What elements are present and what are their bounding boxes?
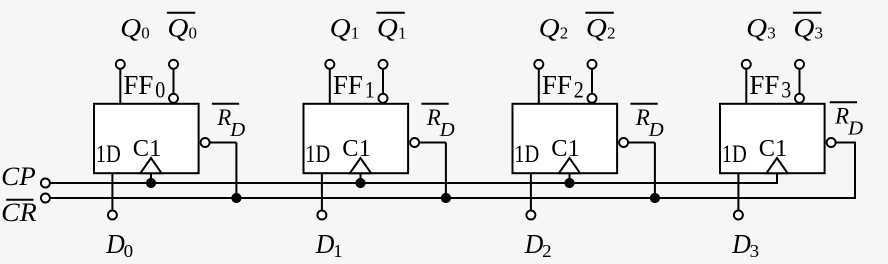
svg-text:FF: FF (333, 70, 363, 100)
svg-text:Q: Q (746, 13, 767, 42)
svg-text:Q: Q (330, 13, 351, 42)
svg-text:D: D (105, 229, 125, 259)
node D3 terminal (734, 211, 743, 220)
svg-text:2: 2 (542, 241, 552, 261)
svg-text:0: 0 (155, 78, 165, 103)
wire Q3 output stub (745, 68, 747, 104)
wire D0 input stub (111, 173, 113, 211)
svg-text:2: 2 (560, 23, 569, 42)
svg-text:C1: C1 (133, 136, 162, 162)
svg-text:R: R (426, 105, 441, 130)
node D2 terminal (526, 211, 535, 220)
wire CP bus horizontal (51, 182, 778, 184)
label Q1-bar overline (376, 12, 404, 14)
svg-text:1: 1 (333, 241, 343, 261)
label Q3-bar overline (793, 12, 821, 14)
CP input terminal (41, 179, 50, 188)
svg-text:1D: 1D (305, 139, 330, 168)
inversion bubble RD FF1 (410, 138, 419, 147)
svg-text:R: R (635, 105, 650, 130)
inversion bubble Q1-bar (379, 94, 388, 103)
wire RD horizontal FF0 (210, 142, 236, 144)
svg-text:R: R (216, 105, 231, 130)
flip-flop U0 FF0 box (94, 104, 199, 173)
wire Q1-bar output stub (382, 68, 384, 94)
svg-text:1D: 1D (722, 139, 747, 168)
svg-text:Q: Q (539, 13, 560, 42)
wire RD vertical FF1 (445, 143, 447, 199)
wire D2 input stub (530, 173, 532, 211)
svg-text:R: R (834, 103, 849, 128)
wire Q1 output stub (329, 68, 331, 104)
svg-text:C1: C1 (759, 136, 788, 162)
svg-text:FF: FF (123, 70, 153, 100)
svg-text:1: 1 (398, 23, 407, 42)
node D0 terminal (108, 211, 117, 220)
svg-text:C1: C1 (551, 136, 580, 162)
label RD overline FF0 (212, 103, 239, 105)
inversion bubble Q3-bar (795, 94, 804, 103)
wire CP riser to FF3 C1 (776, 173, 778, 184)
inversion bubble RD FF2 (619, 138, 628, 147)
wire CR bus horizontal (51, 197, 856, 199)
flip-flop U1 FF1 box (304, 104, 409, 173)
wire FF3 RD horizontal (836, 142, 856, 144)
svg-text:Q: Q (793, 13, 814, 42)
svg-text:0: 0 (189, 23, 198, 42)
label CR overline (6, 199, 33, 201)
wire CR riser to FF3 RD (854, 143, 856, 200)
svg-text:1: 1 (365, 78, 375, 103)
wire Q3-bar output stub (799, 68, 801, 94)
clock edge triangle FF0 (140, 158, 161, 173)
flip-flop U3 FF3 box (720, 104, 825, 173)
junction CR/RD FF0 (231, 193, 241, 203)
wire C1 stub to CP bus FF2 (569, 173, 571, 183)
inversion bubble Q0-bar (169, 94, 178, 103)
svg-text:D: D (524, 229, 544, 259)
wire Q0 output stub (119, 68, 121, 104)
node Q2 terminal (534, 60, 543, 69)
CR input terminal (41, 194, 50, 203)
svg-text:CP: CP (1, 162, 36, 191)
wire RD vertical FF2 (654, 143, 656, 199)
label RD overline FF3 (830, 101, 857, 103)
clock edge triangle FF2 (559, 158, 580, 173)
svg-text:1D: 1D (96, 139, 121, 168)
wire C1 stub to CP bus FF0 (150, 173, 152, 183)
svg-text:1: 1 (351, 23, 360, 42)
junction CR/RD FF2 (650, 193, 660, 203)
svg-text:Q: Q (120, 13, 141, 42)
node Q3 terminal (742, 60, 751, 69)
svg-text:C1: C1 (342, 136, 371, 162)
inversion bubble Q2-bar (588, 94, 597, 103)
svg-text:3: 3 (815, 23, 824, 42)
clock edge triangle FF1 (350, 158, 371, 173)
node Q3-bar terminal (795, 60, 804, 69)
node Q2-bar terminal (588, 60, 597, 69)
label Q2-bar overline (585, 12, 613, 14)
junction CP/C1 FF1 (355, 178, 365, 188)
svg-text:3: 3 (781, 78, 791, 103)
svg-text:Q: Q (167, 13, 188, 42)
svg-text:CR: CR (1, 198, 37, 227)
wire Q2-bar output stub (591, 68, 593, 94)
clock edge triangle FF3 (766, 158, 787, 173)
svg-text:D: D (731, 229, 751, 259)
svg-text:D: D (315, 229, 335, 259)
svg-text:0: 0 (141, 23, 150, 42)
node Q1 terminal (325, 60, 334, 69)
label RD overline FF2 (630, 103, 657, 105)
node Q1-bar terminal (379, 60, 388, 69)
inversion bubble RD FF0 (201, 138, 210, 147)
svg-text:2: 2 (607, 23, 616, 42)
wire D1 input stub (321, 173, 323, 211)
label Q0-bar overline (167, 12, 195, 14)
svg-text:Q: Q (586, 13, 607, 42)
junction CP/C1 FF0 (146, 178, 156, 188)
node Q0 terminal (116, 60, 125, 69)
wire D3 input stub (737, 173, 739, 211)
svg-text:D: D (847, 117, 864, 139)
svg-text:D: D (648, 119, 665, 141)
junction CP/C1 FF2 (564, 178, 574, 188)
label RD overline FF1 (421, 103, 448, 105)
wire Q2 output stub (538, 68, 540, 104)
wire RD horizontal FF1 (420, 142, 446, 144)
node D1 terminal (317, 211, 326, 220)
svg-text:3: 3 (767, 23, 776, 42)
junction CR/RD FF1 (441, 193, 451, 203)
wire RD vertical FF0 (235, 143, 237, 199)
svg-text:1D: 1D (514, 139, 539, 168)
svg-text:D: D (229, 119, 246, 141)
svg-text:0: 0 (124, 241, 134, 261)
wire C1 stub to CP bus FF1 (360, 173, 362, 183)
wire RD horizontal FF2 (629, 142, 655, 144)
flip-flop U2 FF2 box (513, 104, 618, 173)
svg-text:FF: FF (542, 70, 572, 100)
svg-text:2: 2 (574, 78, 584, 103)
inversion bubble RD FF3 (827, 138, 836, 147)
node Q0-bar terminal (169, 60, 178, 69)
svg-text:D: D (439, 119, 456, 141)
wire Q0-bar output stub (173, 68, 175, 94)
svg-text:FF: FF (749, 70, 779, 100)
svg-text:3: 3 (750, 241, 760, 261)
svg-text:Q: Q (377, 13, 398, 42)
